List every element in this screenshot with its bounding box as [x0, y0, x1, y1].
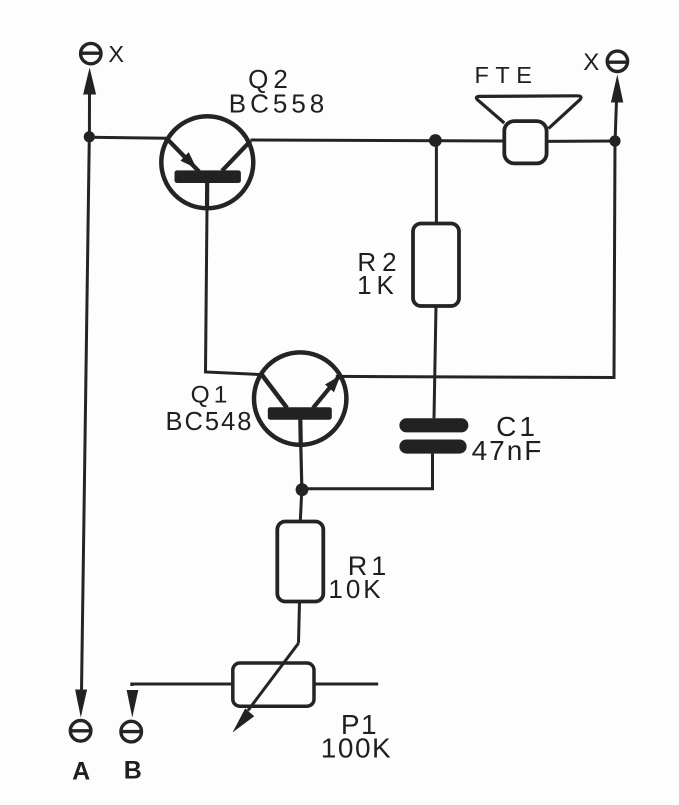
svg-text:FTE: FTE — [475, 62, 539, 88]
node junction (Q1 base / R1 / C1) — [296, 483, 309, 496]
capacitor C1 — [302, 418, 468, 489]
wire: left rail down to terminal A — [82, 137, 90, 691]
transistor Q2 (PNP BC558) — [161, 116, 253, 208]
svg-text:B: B — [124, 757, 142, 785]
node junction (right rail top) — [609, 135, 620, 146]
svg-text:BC548: BC548 — [166, 408, 254, 436]
terminal X2 (minus terminal, top-right) — [607, 51, 628, 71]
potentiometer P1 body — [233, 663, 314, 706]
speaker FTE — [476, 96, 581, 164]
resistor R2 — [413, 141, 459, 419]
resistor R1 — [277, 490, 323, 644]
node junction (rail / R2 top) — [429, 134, 442, 147]
svg-text:Q1: Q1 — [191, 382, 232, 409]
wire: junction to Q2 emitter — [89, 137, 168, 138]
svg-text:100K: 100K — [321, 733, 392, 764]
terminal X1 (minus terminal, top-left) — [80, 43, 102, 63]
svg-text:10K: 10K — [328, 574, 383, 604]
transistor Q1 (NPN BC548) — [254, 352, 346, 444]
wire: Q2 collector rail to R2 junction and speaker — [251, 140, 505, 141]
wire: Q2 base lead down and right to Q1 collector — [205, 182, 209, 210]
svg-text:47nF: 47nF — [472, 435, 544, 466]
wire: speaker to right rail junction — [547, 140, 615, 143]
node junction (left rail / Q2 emitter) — [84, 131, 95, 142]
arrow down (terminal A) — [75, 690, 87, 718]
wire: right rail down to Q1 emitter — [336, 141, 615, 378]
arrow up (right rail to terminal X2) — [611, 75, 623, 139]
terminal A (minus terminal) — [70, 721, 91, 742]
wire: Q1 base lead down to junction — [298, 419, 303, 448]
svg-text:1K: 1K — [357, 270, 399, 300]
potentiometer P1 wiper arrow — [233, 643, 299, 732]
svg-text:X: X — [108, 41, 124, 67]
svg-text:BC558: BC558 — [229, 89, 329, 119]
wire: P1 right stub — [314, 683, 378, 686]
arrow down (terminal B) — [127, 690, 139, 718]
svg-text:A: A — [72, 758, 90, 786]
terminal B (minus terminal) — [121, 721, 142, 742]
arrow up (left rail to terminal X1) — [83, 68, 96, 135]
svg-text:X: X — [583, 49, 599, 76]
wire: P1 left to terminal B — [132, 684, 233, 686]
